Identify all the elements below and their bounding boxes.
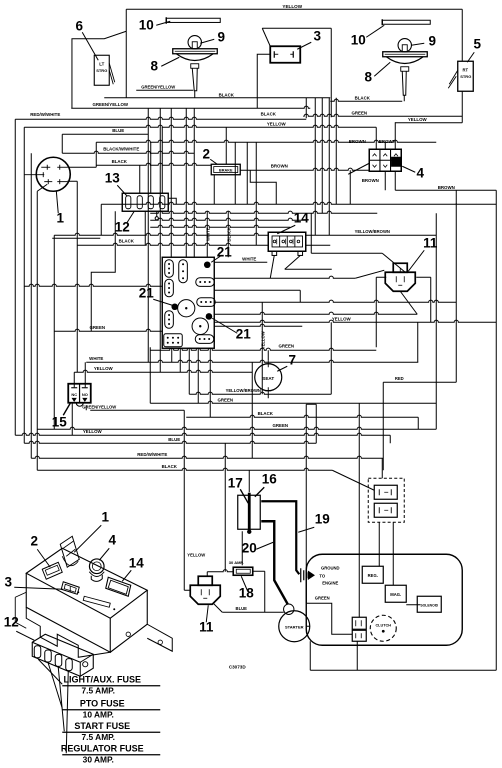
wire: [225, 127, 227, 164]
svg-text:BLUE: BLUE: [168, 437, 180, 442]
label 19: [298, 511, 330, 532]
svg-text:REGULATOR FUSE: REGULATOR FUSE: [61, 743, 144, 753]
wire: [264, 571, 266, 612]
svg-text:WHITE: WHITE: [242, 256, 256, 261]
svg-text:PTO FUSE: PTO FUSE: [80, 698, 125, 708]
label 21 b: [139, 285, 173, 305]
wire GREEN long: [150, 348, 376, 350]
plug a: [374, 485, 397, 499]
wire: [104, 97, 330, 99]
wire: [270, 255, 274, 278]
wire: [306, 603, 352, 634]
label 14 top: [277, 210, 309, 234]
wire: [430, 277, 432, 322]
wire RED/W/WHITE: [15, 117, 306, 119]
svg-text:YELLOW: YELLOW: [187, 552, 205, 557]
wire: [395, 189, 496, 191]
svg-text:BROWN: BROWN: [349, 139, 366, 144]
wire: [185, 108, 187, 257]
lamp 9 bulb left: [188, 36, 201, 49]
wire: [61, 134, 63, 153]
svg-text:RED: RED: [395, 376, 404, 381]
svg-text:GREEN/YELLOW: GREEN/YELLOW: [92, 102, 128, 107]
label 11 top: [408, 235, 438, 271]
wire: [159, 108, 161, 372]
wire: [214, 324, 302, 326]
brake switch 2: [211, 164, 240, 175]
console body: [15, 548, 172, 657]
svg-text:CLUTCH: CLUTCH: [375, 623, 391, 627]
wire GREEN low: [150, 401, 436, 403]
svg-text:YELLOW/BROWN: YELLOW/BROWN: [355, 229, 390, 234]
svg-text:6: 6: [75, 18, 83, 33]
wire: [250, 170, 276, 204]
svg-text:STRG: STRG: [96, 68, 107, 73]
svg-text:GREEN/YELLOW: GREEN/YELLOW: [141, 84, 175, 89]
wire: [168, 198, 177, 204]
svg-text:11: 11: [423, 235, 438, 250]
wire: [171, 348, 173, 362]
ignition switch 1: [24, 157, 70, 191]
switch 3 console: [61, 582, 79, 595]
wire: [305, 98, 307, 119]
svg-text:GREEN: GREEN: [272, 423, 288, 428]
wire: [417, 322, 419, 362]
label 2 console: [30, 533, 50, 567]
knob 4 console: [89, 559, 104, 581]
switch 2 console: [42, 562, 62, 579]
wire: [395, 122, 462, 124]
svg-text:TO: TO: [319, 573, 325, 578]
wire: [261, 302, 263, 394]
wire bottom loop: [310, 669, 496, 671]
svg-text:BLACK: BLACK: [119, 238, 135, 243]
label 7: [277, 352, 296, 371]
wire BLUE starter: [222, 611, 284, 613]
wire: [67, 180, 77, 182]
wire: [73, 372, 75, 387]
wire: [150, 211, 377, 213]
svg-text:BLACK: BLACK: [112, 159, 128, 164]
wire GREEN low2: [37, 427, 436, 429]
svg-text:20: 20: [242, 540, 257, 555]
wire: [461, 91, 463, 123]
label 5: [467, 36, 481, 62]
wire: [382, 253, 405, 272]
svg-text:8: 8: [150, 58, 158, 73]
svg-text:YELLOW: YELLOW: [260, 331, 265, 349]
label 11 bottom: [199, 605, 214, 634]
svg-text:LT: LT: [99, 61, 104, 66]
wire: [384, 142, 386, 149]
svg-text:5: 5: [473, 36, 481, 51]
light bar 10 left: [166, 17, 220, 24]
wire: [72, 31, 126, 108]
wire: [267, 350, 269, 360]
wire BLUE: [62, 133, 148, 135]
wire: [76, 181, 78, 372]
wire: [53, 235, 55, 429]
wire: [328, 98, 330, 236]
svg-text:GREEN: GREEN: [351, 110, 367, 115]
terminal 21 a: [204, 261, 211, 268]
wire: [24, 284, 162, 286]
label 8 left: [150, 57, 179, 73]
svg-text:GREEN: GREEN: [315, 595, 330, 600]
wire GREEN left: [54, 329, 162, 331]
wire BROWN: [240, 168, 369, 170]
connector 4: [369, 149, 401, 171]
svg-text:REG.: REG.: [368, 573, 378, 578]
wire: [455, 203, 457, 382]
module box: [162, 257, 214, 348]
wire: [255, 142, 257, 245]
wire: [101, 202, 496, 204]
connector 14: [268, 232, 306, 255]
wire: [71, 106, 310, 108]
label 2: [202, 146, 217, 164]
svg-text:BROWN: BROWN: [379, 139, 396, 144]
svg-text:21: 21: [236, 326, 252, 341]
svg-text:1: 1: [101, 509, 109, 524]
wire: [267, 394, 269, 398]
label 8 right: [364, 62, 390, 84]
wire: [85, 405, 87, 410]
label 21 a: [211, 244, 232, 262]
wire: [375, 127, 377, 149]
svg-text:YELLOW: YELLOW: [94, 366, 114, 371]
svg-text:3: 3: [313, 28, 321, 43]
svg-text:BLUE: BLUE: [112, 128, 124, 133]
wire: [241, 531, 243, 565]
svg-text:13: 13: [105, 170, 121, 185]
starter motor: [279, 611, 310, 642]
wire: [214, 276, 355, 278]
label 6: [75, 18, 98, 60]
svg-text:ENGINE: ENGINE: [322, 580, 338, 585]
wire: [285, 268, 332, 270]
svg-text:GREEN/YELLOW: GREEN/YELLOW: [82, 404, 116, 409]
wire RED right: [383, 381, 456, 383]
label 10 right: [351, 25, 385, 47]
svg-text:30 AMP.: 30 AMP.: [83, 754, 114, 764]
relay 11 bottom: [190, 576, 220, 604]
wire: [330, 28, 332, 117]
wire: [321, 98, 323, 214]
battery rod 17: [247, 493, 251, 534]
wire fuse lead 2: [48, 663, 62, 708]
wire: [355, 270, 384, 278]
label 4: [402, 165, 424, 180]
LT STRG box: [94, 55, 115, 85]
key switch: [60, 536, 79, 567]
wire: [305, 404, 307, 603]
svg-text:YELLOW/BROWN: YELLOW/BROWN: [226, 388, 261, 393]
svg-text:4: 4: [108, 532, 116, 547]
wire: [52, 237, 100, 239]
wire fuse lead 3: [58, 667, 64, 731]
light bar 10 right: [382, 19, 430, 25]
wire: [150, 142, 152, 193]
svg-text:BLACK: BLACK: [355, 95, 371, 100]
wire: [262, 27, 331, 29]
label 4 console: [99, 532, 116, 560]
svg-text:STARTER: STARTER: [285, 624, 304, 629]
wire: [126, 8, 462, 10]
wire: [193, 108, 195, 257]
label 3: [297, 28, 321, 49]
wire: [84, 362, 86, 387]
svg-text:10: 10: [351, 32, 366, 47]
wire: [36, 191, 38, 470]
wire: [251, 362, 253, 458]
label 9 right: [411, 33, 436, 48]
svg-text:RT: RT: [462, 67, 468, 72]
svg-text:RED/W/WHITE: RED/W/WHITE: [30, 112, 60, 117]
wire YELLOW/BROWN low: [189, 392, 331, 394]
svg-text:YELLOW: YELLOW: [83, 429, 103, 434]
wire: [348, 163, 369, 174]
label 13: [105, 170, 128, 196]
horn 3: [270, 46, 300, 63]
connector 13: [122, 193, 168, 211]
wire: [147, 108, 149, 362]
svg-text:14: 14: [294, 210, 310, 225]
wire: [136, 89, 193, 91]
wire: [257, 54, 270, 108]
wire: [335, 98, 337, 205]
wire: [315, 404, 317, 443]
wire: [416, 276, 431, 278]
svg-text:BLUE: BLUE: [236, 606, 248, 611]
clutch: [370, 615, 396, 641]
label 3 console: [4, 574, 63, 589]
label 18: [239, 576, 255, 600]
wire: [330, 99, 402, 101]
wire: [303, 114, 462, 116]
wire: [206, 211, 208, 257]
wire: [214, 312, 417, 314]
wire: [37, 184, 47, 191]
wire: [406, 604, 420, 606]
label 12 conn: [115, 211, 135, 234]
wire: [179, 348, 181, 372]
wire staircase: [91, 211, 115, 331]
SOLENOID box: [417, 596, 441, 612]
wire: [306, 403, 316, 405]
wire: [495, 190, 497, 670]
wire: [197, 348, 199, 403]
label 10 left: [139, 17, 171, 32]
wire: [67, 166, 96, 168]
clutch connector: [352, 617, 366, 641]
wire: [330, 322, 332, 394]
ground symbol: [301, 568, 315, 582]
wire: [246, 142, 248, 204]
starter solenoid post: [284, 604, 294, 614]
svg-text:NO: NO: [82, 392, 88, 397]
svg-text:17: 17: [228, 475, 243, 490]
fuse list: [61, 674, 160, 764]
wire: [224, 443, 226, 572]
wire: [309, 641, 311, 670]
label 1: [56, 190, 64, 225]
wire: [227, 211, 229, 257]
fuse block 12: [32, 634, 93, 676]
wire: [435, 213, 437, 429]
svg-text:GREEN: GREEN: [278, 343, 294, 348]
svg-text:2: 2: [202, 146, 210, 161]
wire GREEN/YELLOW low: [90, 409, 184, 411]
wire: [54, 233, 436, 235]
svg-text:GROUND: GROUND: [321, 565, 340, 570]
wire: [262, 28, 270, 46]
wire: [30, 153, 32, 458]
label 1 console: [74, 509, 109, 552]
label GROUND TO ENGINE: [319, 565, 339, 585]
wire: [285, 255, 301, 269]
console slot: [77, 591, 115, 610]
wire BLUE low: [24, 441, 316, 443]
label 9 left: [200, 29, 225, 44]
wire: [214, 261, 267, 263]
wire: [188, 348, 190, 394]
wire fuse lead 4: [66, 671, 68, 753]
wire: [314, 98, 316, 236]
wire: [403, 95, 405, 101]
svg-text:BLACK: BLACK: [261, 111, 277, 116]
wire: [400, 291, 417, 314]
wire: [356, 641, 358, 670]
wire: [299, 290, 301, 302]
svg-text:WHITE: WHITE: [89, 356, 103, 361]
wire: [71, 403, 73, 435]
svg-text:2: 2: [30, 533, 38, 548]
wire: [96, 140, 436, 142]
wire: [209, 348, 211, 417]
label 17: [228, 475, 249, 503]
wire: [248, 470, 250, 492]
svg-text:BLACK/W/WHITE: BLACK/W/WHITE: [103, 146, 139, 151]
wire: [139, 165, 141, 193]
wire: [100, 204, 102, 235]
terminal: [155, 217, 158, 220]
wire: [375, 277, 377, 347]
svg-text:BROWN: BROWN: [438, 185, 455, 190]
svg-text:C3073D: C3073D: [229, 664, 247, 669]
terminal 21 c: [206, 313, 213, 320]
svg-text:7.5 AMP.: 7.5 AMP.: [81, 685, 115, 695]
wire RED/W/WHITE low: [31, 456, 383, 458]
svg-text:START FUSE: START FUSE: [74, 721, 130, 731]
wire: [394, 122, 396, 149]
wire: [144, 211, 146, 245]
wire: [384, 171, 386, 190]
label 15: [52, 403, 71, 429]
wire: [214, 289, 300, 291]
svg-text:21: 21: [139, 285, 155, 300]
wire: [95, 142, 97, 167]
wire: [150, 225, 290, 227]
svg-text:7.5 AMP.: 7.5 AMP.: [81, 732, 115, 742]
wire WHITE low: [86, 360, 418, 362]
wire: [161, 127, 163, 193]
lamp 8 base right: [383, 52, 428, 96]
svg-text:BRAKE: BRAKE: [219, 169, 233, 173]
svg-text:BLACK: BLACK: [219, 92, 235, 97]
svg-text:STRG: STRG: [460, 74, 471, 79]
svg-text:YELLOW: YELLOW: [282, 4, 302, 9]
svg-text:BLACK: BLACK: [258, 411, 274, 416]
svg-text:4: 4: [416, 165, 424, 180]
svg-text:15: 15: [52, 414, 68, 429]
lamp 9 bulb right: [398, 39, 411, 52]
wire: [310, 213, 312, 253]
svg-text:BLACK: BLACK: [162, 464, 178, 469]
battery ground cable: [261, 501, 299, 574]
svg-text:RED/W/WHITE: RED/W/WHITE: [137, 452, 167, 457]
label 21 c: [212, 318, 251, 341]
terminal 21 b: [171, 303, 178, 310]
label 20: [242, 540, 274, 555]
wire BLACK low: [186, 415, 418, 417]
wire: [170, 108, 172, 257]
wire: [455, 190, 457, 204]
svg-text:YELLOW: YELLOW: [408, 117, 428, 122]
hour meter 14: [106, 577, 131, 596]
svg-text:9: 9: [217, 29, 225, 44]
wire: [332, 470, 374, 490]
wire BLACK band: [77, 243, 330, 245]
svg-text:NC: NC: [71, 392, 77, 397]
wire: [389, 435, 391, 443]
svg-text:YELLOW: YELLOW: [332, 316, 352, 321]
wire: [24, 125, 376, 127]
lamp 8 base left: [173, 49, 218, 91]
svg-text:LIGHT/AUX. FUSE: LIGHT/AUX. FUSE: [63, 674, 141, 684]
seat switch 7: [255, 360, 282, 394]
svg-text:30 AMP.: 30 AMP.: [229, 560, 244, 565]
svg-text:SOLENOID: SOLENOID: [420, 603, 438, 607]
wire: [23, 127, 25, 443]
svg-text:10 AMP.: 10 AMP.: [83, 709, 114, 719]
wire: [234, 142, 236, 204]
label 12 console: [4, 614, 35, 640]
wire: [349, 170, 351, 204]
fuse 18: [229, 560, 253, 576]
wire: [253, 570, 265, 572]
svg-text:19: 19: [315, 511, 330, 526]
wire: [149, 347, 151, 403]
wire: [14, 119, 16, 435]
svg-text:14: 14: [129, 555, 145, 570]
dashed box: [368, 478, 404, 522]
svg-text:12: 12: [4, 614, 19, 629]
svg-text:3: 3: [4, 574, 12, 589]
svg-text:9: 9: [428, 33, 436, 48]
wire: [213, 175, 215, 205]
wire YELLOW right2: [214, 320, 496, 322]
svg-text:BROWN: BROWN: [271, 163, 288, 168]
wire: [307, 625, 310, 627]
battery 16: [238, 495, 261, 529]
engine block: [306, 554, 462, 645]
wire: [150, 218, 307, 220]
svg-text:GREEN: GREEN: [89, 325, 105, 330]
svg-text:8: 8: [364, 69, 372, 84]
wire fuse lead 1: [38, 659, 62, 684]
wire YELLOW low2: [15, 433, 390, 435]
